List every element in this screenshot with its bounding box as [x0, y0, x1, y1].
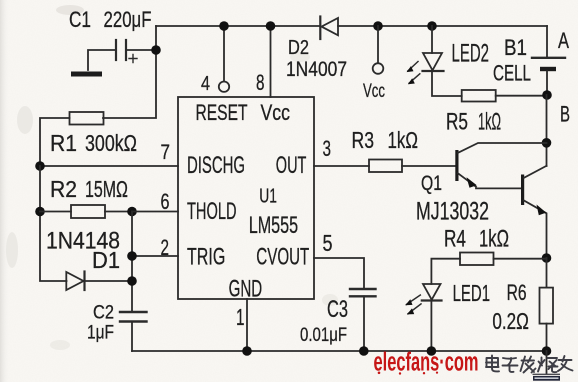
svg-text:1N4007: 1N4007: [286, 58, 347, 81]
wire B node down to collector: [546, 95, 548, 166]
svg-text:C2: C2: [93, 303, 114, 324]
node pin4 junction: [219, 21, 229, 31]
svg-text:D2: D2: [288, 37, 309, 59]
svg-text:6: 6: [161, 189, 170, 214]
svg-text:1kΩ: 1kΩ: [478, 109, 501, 136]
resistor R4: [431, 253, 546, 285]
node TRIG junction: [127, 251, 137, 261]
capacitor C2: [120, 312, 147, 351]
svg-text:THOLD: THOLD: [187, 198, 237, 225]
svg-text:Q1: Q1: [421, 172, 442, 195]
node C1 junction: [151, 45, 161, 55]
svg-text:GND: GND: [229, 276, 263, 303]
LED D_LED2: [407, 26, 462, 96]
svg-text:R1: R1: [50, 130, 77, 156]
node R4 emitter junction: [542, 253, 552, 263]
svg-text:R4: R4: [444, 226, 466, 253]
wire middle bus down: [131, 212, 133, 312]
svg-text:B: B: [560, 102, 570, 127]
svg-text:4: 4: [201, 73, 210, 95]
node R2 left junction: [35, 207, 45, 217]
resistor R1: [40, 112, 104, 166]
transistor Q1 second stage: [521, 166, 547, 258]
svg-text:Vcc: Vcc: [261, 100, 291, 125]
svg-text:1μF: 1μF: [87, 323, 114, 344]
wire left vertical from top rail to R1: [103, 26, 156, 118]
node LED2 junction: [427, 21, 437, 31]
svg-text:A: A: [558, 28, 569, 53]
capacitor C1: [88, 40, 156, 70]
svg-text:0.2Ω: 0.2Ω: [492, 308, 529, 334]
svg-text:elecfans·com: elecfans·com: [374, 349, 479, 377]
node pin7 junction: [35, 161, 45, 171]
wire pin5 to C3: [314, 258, 364, 288]
svg-text:7: 7: [161, 141, 171, 164]
resistor R5: [462, 90, 547, 102]
node LED1 rail junction: [427, 346, 437, 356]
wire pin4: [223, 26, 225, 81]
svg-text:300kΩ: 300kΩ: [85, 130, 137, 156]
svg-text:B1: B1: [504, 35, 527, 60]
svg-text:1kΩ: 1kΩ: [388, 127, 419, 153]
svg-text:1: 1: [236, 304, 245, 330]
node battery bottom B: [542, 90, 552, 100]
svg-text:8: 8: [256, 70, 265, 95]
node collector junction: [542, 138, 552, 148]
wire pin2 to chip: [132, 255, 178, 257]
diode D1: [66, 272, 132, 291]
resistor R3: [369, 160, 456, 173]
svg-text:MJ13032: MJ13032: [416, 198, 489, 226]
svg-text:R2: R2: [50, 176, 77, 202]
svg-text:15MΩ: 15MΩ: [85, 176, 128, 202]
wire top rail right of D2: [338, 25, 547, 27]
node R6 rail junction: [542, 346, 552, 356]
ground: [71, 72, 102, 77]
wire top rail left of D2: [156, 25, 320, 27]
transistor Q1 first stage: [455, 143, 546, 188]
svg-text:1kΩ: 1kΩ: [479, 226, 509, 253]
node pin8 junction: [266, 21, 276, 31]
wire pin3 to R3: [314, 165, 369, 167]
svg-text:5: 5: [323, 230, 333, 256]
svg-text:D1: D1: [92, 247, 120, 273]
svg-text:0.01μF: 0.01μF: [300, 324, 347, 346]
wire pin1 GND to rail: [246, 299, 248, 351]
pin 4 reset bubble: [219, 82, 229, 92]
svg-text:CELL: CELL: [493, 61, 531, 86]
svg-text:R6: R6: [507, 280, 527, 305]
op-amp U1 LM555 chip body: [178, 97, 314, 299]
svg-text:LED2: LED2: [452, 40, 490, 68]
node GND rail junction: [242, 346, 252, 356]
Vcc terminal: [373, 26, 384, 74]
node C3 rail junction: [359, 346, 369, 356]
svg-text:TRIG: TRIG: [187, 243, 225, 270]
svg-text:CVOUT: CVOUT: [256, 243, 309, 270]
svg-text:DISCHG: DISCHG: [187, 152, 245, 179]
svg-text:C3: C3: [327, 296, 348, 323]
battery B1: [532, 26, 565, 95]
node R2 right junction: [127, 207, 137, 217]
svg-text:R3: R3: [352, 127, 375, 153]
svg-text:LM555: LM555: [249, 212, 299, 239]
wire stub below rail to logo: [546, 351, 548, 374]
svg-text:RESET: RESET: [196, 100, 248, 125]
wire bottom rail: [132, 350, 547, 352]
svg-text:220μF: 220μF: [104, 7, 152, 32]
resistor R6: [540, 258, 554, 351]
svg-text:OUT: OUT: [276, 152, 307, 179]
svg-text:2: 2: [161, 235, 170, 260]
capacitor C3: [350, 289, 376, 351]
svg-text:C1: C1: [69, 7, 91, 32]
svg-text:U1: U1: [259, 186, 277, 208]
svg-text:3: 3: [323, 136, 332, 161]
svg-text:R5: R5: [446, 109, 468, 136]
svg-text:LED1: LED1: [453, 280, 491, 306]
wire pin6 to chip: [132, 211, 178, 213]
logo box: [533, 374, 561, 380]
wire pin7 to chip: [40, 165, 178, 167]
LED D_LED1: [405, 284, 441, 351]
diode D2: [320, 17, 338, 40]
node D1 right junction: [127, 276, 137, 286]
watermark chinese characters: [486, 356, 573, 373]
wire left bus down: [40, 166, 67, 281]
wire pin8: [270, 26, 272, 97]
node Vcc junction: [373, 21, 383, 31]
resistor R2: [40, 205, 132, 218]
svg-text:Vcc: Vcc: [363, 80, 385, 102]
